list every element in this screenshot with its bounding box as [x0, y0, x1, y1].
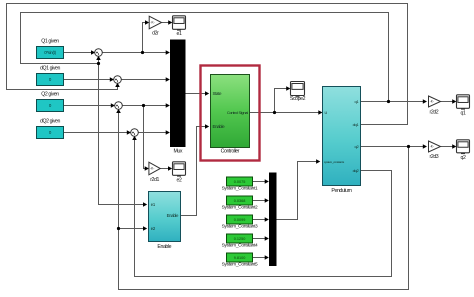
svg-text:Enable: Enable [213, 124, 226, 129]
svg-text:-K-: -K- [430, 100, 434, 104]
svg-text:e1: e1 [177, 31, 182, 37]
svg-text:0.0368: 0.0368 [234, 199, 246, 203]
svg-text:dQ2 given: dQ2 given [40, 119, 61, 125]
svg-text:Mux: Mux [173, 149, 182, 155]
svg-text:Enable: Enable [157, 244, 171, 250]
svg-text:System_Constant5: System_Constant5 [222, 262, 258, 268]
svg-text:System_Constant3: System_Constant3 [222, 224, 258, 230]
svg-text:9.8100: 9.8100 [234, 256, 246, 260]
svg-text:system_constants: system_constants [324, 160, 345, 164]
svg-text:-K-: -K- [150, 21, 154, 25]
svg-text:d2r: d2r [152, 31, 159, 37]
svg-text:dQ1 given: dQ1 given [40, 66, 61, 72]
svg-text:0.0099: 0.0099 [234, 218, 246, 222]
svg-text:-K-: -K- [150, 167, 154, 171]
svg-text:System_Constant2: System_Constant2 [222, 205, 258, 211]
svg-text:Control Signal: Control Signal [227, 110, 248, 115]
svg-text:System_Constant1: System_Constant1 [222, 186, 258, 192]
svg-text:Pendulum: Pendulum [331, 188, 351, 194]
svg-text:e2: e2 [177, 178, 182, 184]
svg-text:System_Constant4: System_Constant4 [222, 243, 258, 249]
svg-text:q1: q1 [461, 111, 466, 117]
svg-text:0*sin(t): 0*sin(t) [44, 50, 56, 55]
svg-text:q2: q2 [461, 155, 466, 161]
svg-text:State: State [213, 91, 223, 96]
svg-text:Controller: Controller [221, 149, 240, 155]
svg-text:-K-: -K- [430, 145, 434, 149]
svg-text:r2d1: r2d1 [150, 177, 159, 183]
svg-text:r2d3: r2d3 [430, 154, 439, 160]
svg-text:Q1 given: Q1 given [41, 39, 59, 45]
svg-text:r2d2: r2d2 [430, 109, 439, 115]
svg-text:dq1: dq1 [353, 122, 360, 127]
svg-text:Scope2: Scope2 [290, 96, 306, 102]
svg-text:dq2: dq2 [353, 168, 360, 173]
svg-text:Enable: Enable [167, 213, 179, 218]
svg-text:0.1250: 0.1250 [234, 237, 246, 241]
svg-text:Q2 given: Q2 given [41, 92, 59, 98]
svg-text:0.0075: 0.0075 [234, 180, 246, 184]
